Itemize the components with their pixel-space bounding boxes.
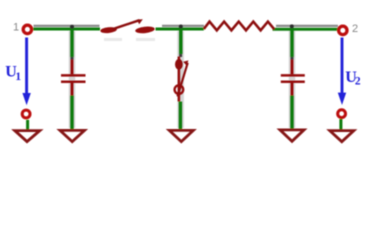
source G1 bottom ring xyxy=(175,85,184,94)
wire shunt3 upper green xyxy=(290,29,294,57)
inductor L1 variable arrow shaft xyxy=(113,20,140,29)
wire shunt2 upper green xyxy=(179,29,183,54)
junction dot node2 xyxy=(179,25,183,29)
junction dot node3 xyxy=(290,24,294,28)
capacitor C1 plate upper xyxy=(61,74,86,77)
inductor L1 faint value ghost left xyxy=(104,38,122,41)
ground left triangle xyxy=(15,131,40,142)
wire top rail gray edge xyxy=(34,25,339,27)
wire top rail right segment xyxy=(273,28,339,31)
wire shunt2 lower green xyxy=(179,102,183,130)
wire top rail middle segment xyxy=(156,28,204,31)
ground shunt1 triangle xyxy=(60,130,85,141)
resistor R1 zigzag xyxy=(204,22,274,31)
wire shunt1 gray stub xyxy=(71,57,74,61)
terminal circle top-right xyxy=(339,26,347,34)
capacitor C1 plate lower xyxy=(61,81,86,84)
inductor L1 series blob right xyxy=(135,26,155,34)
voltage arrow U1 head xyxy=(22,93,30,105)
capacitor C1 bottom lead xyxy=(71,83,74,96)
wire top rail left segment xyxy=(33,28,100,31)
source G1 body line xyxy=(178,57,181,102)
wire shunt3 lower green xyxy=(290,96,294,130)
capacitor C2 plate upper xyxy=(281,74,305,77)
wire shunt1 upper green xyxy=(70,29,74,57)
source G1 top ring xyxy=(175,59,183,70)
ground shunt3 triangle xyxy=(280,130,304,141)
inductor L1 faint value ghost right xyxy=(136,38,155,41)
terminal circle bottom-left xyxy=(22,110,30,118)
capacitor C2 plate lower xyxy=(281,81,305,84)
wire shunt halo columns xyxy=(72,31,292,128)
voltage arrow U2 head xyxy=(338,93,346,105)
junction dot node1 xyxy=(70,25,74,29)
terminal circle bottom-right xyxy=(338,110,346,118)
voltage arrow U1 shaft xyxy=(25,38,28,95)
wire shunt2 gray stub xyxy=(179,54,182,57)
source G1 variable arrow head xyxy=(183,60,188,65)
capacitor C1 top lead xyxy=(71,60,74,75)
svg-text:2: 2 xyxy=(352,23,358,35)
wire shunt1 lower green xyxy=(70,96,74,130)
capacitor C2 bottom lead xyxy=(291,83,294,96)
voltage arrow U2 shaft xyxy=(341,38,344,94)
inductor L1 series blob left xyxy=(100,26,117,34)
capacitor C2 top lead xyxy=(291,60,294,75)
svg-text:1: 1 xyxy=(13,22,19,34)
wire shunt3 gray stub xyxy=(291,57,294,61)
ground right triangle xyxy=(330,131,354,142)
terminal circle top-left xyxy=(23,25,31,33)
wire bottom-right stub xyxy=(339,119,342,130)
ground shunt2 triangle xyxy=(169,130,193,141)
wire bottom-left stub xyxy=(26,120,29,130)
source G1 variable arrow shaft xyxy=(178,63,188,97)
inductor L1 variable arrow head xyxy=(137,19,143,24)
